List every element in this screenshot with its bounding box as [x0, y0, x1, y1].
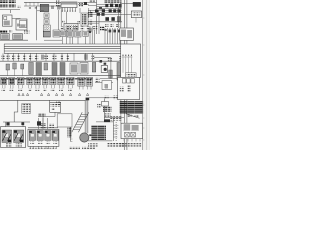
marks row y24-27 [105, 24, 119, 27]
inline connector dark [6, 122, 9, 125]
resistor R1 element [45, 14, 48, 17]
wire [0, 75, 122, 77]
harness verticals [90, 26, 120, 44]
corner label [34, 7, 37, 9]
label text [0, 30, 7, 33]
header text row dense [104, 0, 122, 3]
switch S1 mechanism [20, 24, 25, 27]
component marks [104, 114, 111, 118]
relay tail wires [8, 69, 23, 76]
pin labels [30, 148, 57, 150]
wire [65, 30, 67, 44]
legend text block row 1 [0, 0, 8, 3]
branch label [104, 96, 109, 99]
right page margin shading [143, 0, 150, 150]
pins below box B [31, 146, 57, 149]
asterisk mark [28, 7, 31, 9]
pin dash marks [89, 29, 121, 33]
actuator box B [28, 129, 59, 146]
wire [120, 3, 133, 5]
branch wire [44, 39, 62, 41]
small relay a [6, 64, 10, 70]
connector pins [2, 85, 91, 90]
cluster [88, 20, 92, 25]
connector contents [1, 78, 92, 85]
ECU pin marks [123, 55, 132, 57]
box D pins [124, 139, 140, 142]
small component [104, 63, 107, 65]
wire [14, 100, 18, 122]
relay stack box [81, 13, 88, 26]
legend text block row 2 [0, 4, 8, 7]
ECU internal bus [122, 56, 133, 58]
component blobs row 1 [105, 4, 121, 8]
wire [3, 121, 30, 123]
drop wires to fuse row [3, 53, 111, 78]
row of small boxes above bus [60, 26, 90, 31]
page edge line 2 [146, 0, 148, 150]
junction label block [22, 104, 31, 114]
wire [117, 5, 119, 28]
label g1 [62, 20, 65, 23]
wire [112, 118, 114, 141]
small relay c [21, 64, 24, 69]
wire [88, 23, 99, 25]
inline connector [84, 2, 87, 5]
wire [121, 13, 131, 15]
resistor pack element b [127, 30, 132, 38]
bus drop wires [63, 37, 86, 44]
wire [5, 122, 7, 127]
wire [37, 118, 39, 129]
caption [88, 143, 98, 146]
page edge line 1 [142, 0, 144, 150]
meter box [101, 66, 107, 73]
distributor cap circle [80, 133, 89, 142]
component blobs row 3 [97, 13, 105, 16]
wire [88, 21, 122, 23]
ECU box R2 [118, 77, 140, 99]
ladder rail left [72, 112, 82, 132]
junction box [57, 114, 72, 127]
wire [43, 112, 55, 128]
VAF tail wire [135, 18, 137, 23]
wire [22, 122, 24, 127]
sensor box B1 [53, 30, 60, 37]
note mark [51, 108, 54, 111]
ML label [56, 101, 61, 105]
wire [96, 121, 113, 123]
terminal doodle cluster [120, 101, 144, 113]
R2 pin frames [123, 79, 135, 84]
diode D1 [51, 6, 54, 10]
cable top terminal [86, 98, 90, 101]
wire [78, 4, 89, 6]
box D element 1 [124, 124, 131, 130]
sensor branch wire [104, 99, 106, 120]
fuse dark 2 [84, 54, 88, 60]
inline component box [102, 102, 109, 107]
wire [60, 8, 62, 26]
connector sublabels [2, 89, 73, 91]
wire [88, 8, 90, 18]
relay f [44, 63, 48, 70]
tall relay e [36, 63, 42, 76]
switch S1 inner frame [20, 21, 27, 28]
aux box mark [105, 84, 109, 89]
actuator box A [1, 127, 26, 148]
diode D2 [57, 5, 61, 10]
box D element 2 [132, 125, 139, 131]
spec text block [91, 125, 106, 140]
cable edge left [84, 100, 86, 133]
legend text block row 1b [9, 0, 16, 3]
small component [99, 7, 102, 9]
bus wire 5 [4, 52, 121, 54]
small relay b [13, 63, 16, 69]
wire ticks [70, 139, 72, 141]
junction block J1 [40, 4, 49, 11]
terminal labels 2 [16, 143, 22, 146]
tall relay i [92, 63, 96, 73]
long wire [0, 99, 87, 101]
solenoid 2 [37, 131, 43, 141]
wire label stack [67, 128, 71, 138]
fuse labels row [2, 55, 125, 61]
wire [69, 127, 71, 142]
ruler ticks on page edge [143, 18, 145, 140]
ECU inner label [126, 74, 135, 77]
connector boxes [1, 77, 93, 86]
wire [37, 10, 44, 12]
fuse dark [41, 55, 44, 60]
wire [95, 81, 113, 83]
gauge 2 element [81, 64, 87, 73]
tall dark component [117, 16, 121, 22]
label text [24, 31, 30, 34]
vertical feed wire [96, 0, 98, 34]
amplifier box A1 [64, 24, 78, 31]
distribution wire [0, 60, 122, 62]
vertical border wire 2 [126, 0, 128, 150]
relay K1 coil [4, 21, 10, 26]
wire [0, 9, 20, 11]
header text row [89, 0, 95, 3]
ignition module box [43, 31, 50, 37]
lattice wire 1 [97, 4, 122, 6]
component blobs row 2 [95, 9, 120, 12]
label right of strip [79, 3, 83, 7]
switch S1 contact block [17, 24, 20, 27]
side marks [77, 21, 80, 24]
wire [88, 140, 112, 142]
box D switch 1 [125, 132, 130, 137]
wire [78, 2, 97, 4]
resistor pack element a [121, 30, 126, 37]
cluster marks below [128, 114, 132, 117]
tall relay h [60, 63, 65, 76]
ECU box R1 [121, 44, 141, 77]
fuse block F2 [13, 34, 23, 40]
relay K1 contact [4, 17, 7, 20]
ladder rail right [78, 112, 88, 132]
side label [97, 104, 101, 108]
supply wire [24, 1, 61, 3]
small label [114, 96, 119, 100]
wire [72, 30, 74, 44]
vertical label column [56, 0, 59, 6]
note text [51, 103, 60, 107]
terminal block dark [133, 2, 141, 6]
label text [9, 30, 12, 33]
lattice wire 5 [88, 12, 122, 14]
vertical border wire left of margin [123, 0, 125, 150]
main vertical wire [36, 6, 38, 40]
inline connector dark 2 [21, 122, 24, 125]
wire [104, 117, 124, 119]
wire [12, 18, 21, 20]
cable edge right [87, 100, 89, 133]
sensor strip [109, 70, 112, 78]
switch box S1 [16, 19, 27, 30]
resistor block R1 [44, 13, 49, 18]
wire [28, 127, 58, 129]
small connector label [95, 78, 100, 84]
label [45, 55, 48, 59]
ECU internal wires [123, 57, 131, 73]
bus wire 3 [4, 48, 121, 50]
terminal on circle [89, 134, 91, 136]
fuse dark 3 [108, 58, 112, 62]
header labels above connectors [1, 78, 93, 80]
regulator box U1 [43, 25, 50, 31]
vertical wire [98, 16, 100, 34]
resistor R2 element [45, 20, 48, 23]
wire [90, 10, 92, 12]
wire [88, 5, 97, 7]
bus wire 1 [4, 43, 121, 45]
dashed wire [115, 122, 117, 141]
relay VAF label [133, 13, 141, 17]
wire [83, 21, 92, 23]
box D switch 2 [131, 132, 136, 137]
rung [113, 125, 118, 137]
gauge box 2 [80, 63, 88, 75]
meter needle blob [104, 68, 107, 71]
relay box K1 [3, 15, 13, 26]
control box D [121, 123, 143, 138]
blob row y17-21 [105, 17, 114, 21]
link legs [62, 8, 75, 11]
diagonal lead wire [126, 114, 140, 119]
wire stub [10, 10, 12, 13]
instrument elements [61, 32, 87, 36]
R2 glyph a [120, 87, 124, 93]
component cluster [103, 107, 112, 113]
wire [120, 100, 122, 124]
sensor mark [88, 28, 91, 33]
resistor pack box [120, 28, 134, 40]
fuse block F1 [1, 34, 9, 40]
inline connector dark [104, 119, 110, 122]
darker contents first connectors [2, 79, 6, 84]
motor assembly left [2, 130, 12, 143]
label [84, 23, 87, 26]
amplifier A1 contents [65, 25, 77, 29]
tall narrow resistor chain [117, 63, 121, 81]
R2 glyph b [127, 86, 131, 93]
gauge box [70, 63, 78, 74]
solenoid 1 [29, 131, 35, 141]
branch wire [94, 57, 111, 59]
tall relay d [29, 63, 34, 75]
bus wire 4 [4, 50, 121, 52]
wire [100, 78, 117, 80]
solenoid 4 [52, 131, 58, 141]
note box [50, 102, 61, 112]
fusible link elements [61, 2, 76, 4]
tap stubs [26, 2, 38, 6]
aux box [102, 81, 112, 90]
wire [0, 39, 28, 41]
branch wire horizontal [89, 97, 118, 99]
ECU inner connector [126, 73, 137, 78]
instrument boxes above bus [60, 31, 88, 37]
inline connector dark [37, 121, 41, 125]
fusible link strip [61, 2, 77, 8]
supply wire 2 [24, 5, 61, 7]
lattice wire 4 [88, 10, 122, 12]
relay stack contents [82, 14, 87, 25]
wire [42, 118, 44, 129]
lattice wire 3 [97, 7, 122, 9]
cluster dark [100, 26, 104, 31]
lattice wire 2 [97, 6, 122, 8]
wire [120, 4, 122, 45]
wire [38, 116, 44, 118]
small label [17, 6, 21, 8]
caption 2 [108, 143, 125, 148]
ladder rungs [73, 114, 88, 129]
fuse block F1 elements [2, 34, 9, 39]
solenoid 3 [45, 131, 51, 141]
main cable sheath [85, 100, 88, 133]
ground symbols row [18, 93, 89, 95]
link feet [62, 11, 76, 12]
cluster left [88, 12, 93, 17]
fuse block F2 elements [14, 34, 22, 39]
bus wire 2 [4, 45, 121, 47]
junction marks [110, 116, 122, 121]
legend text block row 2b [9, 4, 16, 7]
sensor B1 element [54, 31, 60, 36]
bus left end join [3, 44, 5, 53]
caption under box D [120, 143, 141, 146]
wire [49, 100, 51, 102]
gauge element [71, 65, 77, 73]
regulator U1 inner [44, 26, 49, 30]
caption under distributor [69, 147, 80, 150]
relay box VAF [131, 11, 141, 18]
wire [79, 8, 81, 13]
terminal labels [6, 143, 12, 146]
wire [65, 12, 67, 24]
small component [100, 60, 103, 63]
tall relay g [52, 63, 57, 76]
resistor block R2 [44, 19, 49, 24]
DAC label [38, 113, 46, 116]
label [49, 124, 54, 129]
cluster [93, 26, 97, 30]
label [40, 123, 46, 129]
lattice wire 6 [88, 13, 122, 15]
wire [47, 118, 49, 129]
motor assembly right [14, 130, 24, 143]
wire [58, 10, 60, 30]
cluster marks below 2 [135, 115, 139, 118]
